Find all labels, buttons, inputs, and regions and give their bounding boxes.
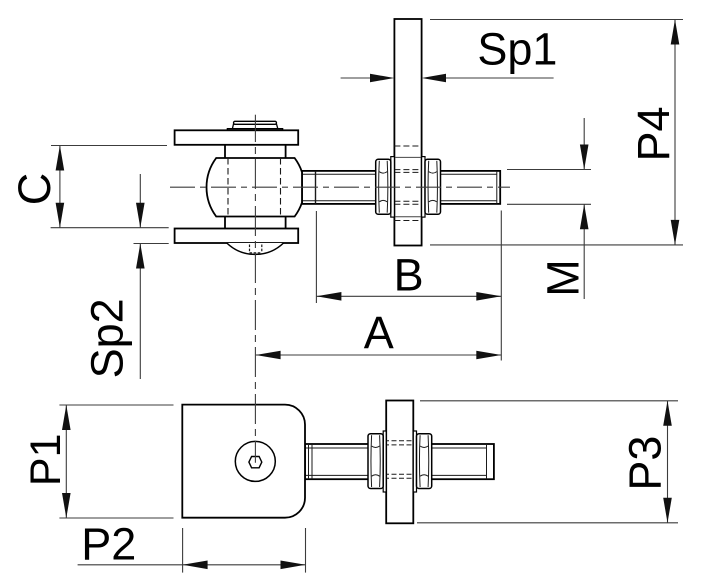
svg-text:P2: P2 bbox=[81, 518, 136, 569]
svg-text:B: B bbox=[394, 250, 424, 301]
svg-text:Sp2: Sp2 bbox=[82, 298, 133, 378]
svg-text:P3: P3 bbox=[620, 436, 671, 491]
svg-text:P4: P4 bbox=[628, 106, 679, 161]
svg-text:Sp1: Sp1 bbox=[477, 24, 557, 75]
svg-text:C: C bbox=[9, 173, 60, 206]
svg-text:M: M bbox=[537, 259, 588, 297]
svg-text:A: A bbox=[364, 307, 394, 358]
svg-text:P1: P1 bbox=[22, 433, 70, 486]
